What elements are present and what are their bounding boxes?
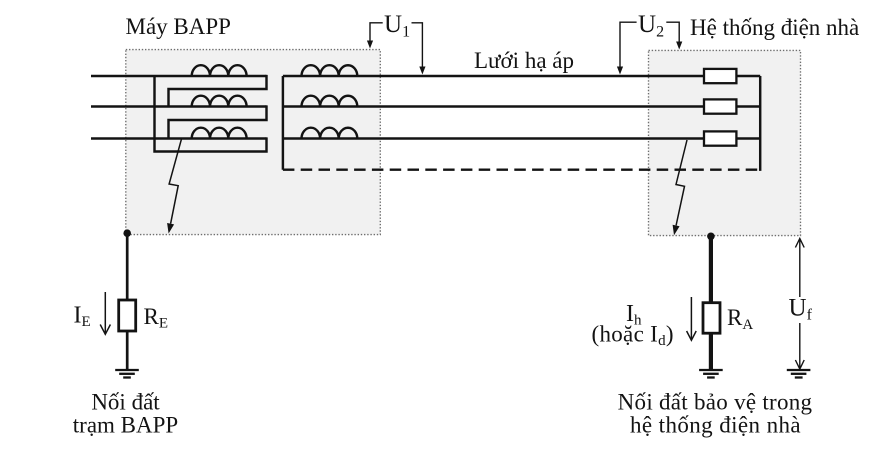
voltage arrow Uf (double headed) — [795, 239, 804, 370]
ground reference for Uf — [787, 370, 811, 378]
wire house PE conductor upper (thick) — [709, 236, 713, 303]
wire station earth conductor upper — [126, 233, 129, 300]
arrowhead U1 left — [367, 41, 373, 49]
wire phase L3 input and primary winding W1c baseline — [91, 137, 267, 139]
measurement bracket U2 — [620, 22, 679, 72]
wire load Z2 to bus — [736, 105, 760, 107]
wire load Z3 to bus — [736, 137, 760, 139]
wire phase L2 input and primary winding W1b baseline — [91, 105, 267, 107]
primary winding W1c humps — [192, 128, 247, 139]
load resistor Z2 — [704, 99, 736, 113]
wire line L2 grid conductor and secondary winding W2b baseline — [283, 105, 704, 107]
svg-text:Nối đất bảo vệ trong: Nối đất bảo vệ trong — [618, 390, 813, 415]
svg-text:U2: U2 — [638, 11, 664, 41]
enclosure box Hệ thống điện nhà (house electrical system) — [649, 50, 801, 235]
wire line L3 grid conductor and secondary winding W2c baseline — [283, 137, 704, 139]
wire house PE conductor lower (thick) — [709, 333, 713, 369]
wire station earth conductor lower — [126, 331, 129, 370]
ground station earth — [115, 370, 139, 378]
svg-text:Nối đất: Nối đất — [91, 390, 160, 415]
label Uf (white backing) — [786, 297, 814, 323]
wire secondary star-point bus — [282, 76, 284, 170]
svg-text:IE: IE — [74, 303, 91, 331]
enclosure box Máy BAPP (transformer station) — [126, 50, 380, 235]
svg-text:RE: RE — [144, 304, 169, 332]
node station earth junction — [123, 229, 131, 237]
secondary winding W2b humps — [302, 96, 358, 107]
load resistor Z1 — [704, 69, 736, 83]
wire line L1 grid conductor and secondary winding W2a baseline — [283, 75, 704, 77]
svg-text:RA: RA — [727, 305, 753, 333]
ground house protective earth — [699, 370, 723, 378]
resistor RA body — [703, 303, 720, 334]
svg-text:Lưới hạ áp: Lưới hạ áp — [474, 48, 574, 73]
load resistor Z3 — [704, 131, 736, 145]
current arrow IE — [100, 292, 110, 334]
arrowhead U2 right — [676, 42, 682, 50]
wire phase L1 input and primary winding W1a baseline — [91, 75, 267, 77]
fault path arrow in house — [673, 140, 687, 235]
current arrow Ih — [687, 297, 697, 340]
secondary winding W2c humps — [302, 128, 358, 139]
svg-text:U1: U1 — [384, 11, 410, 41]
svg-text:Máy BAPP: Máy BAPP — [126, 14, 231, 39]
wire load Z1 to bus — [736, 75, 760, 77]
wire PEN neutral dashed conductor — [283, 168, 760, 170]
svg-text:trạm BAPP: trạm BAPP — [73, 413, 178, 438]
svg-text:(hoặc Id): (hoặc Id) — [592, 322, 674, 350]
svg-text:hệ thống điện nhà: hệ thống điện nhà — [630, 413, 801, 438]
resistor RE body — [119, 300, 136, 331]
fault path arrow in station — [167, 139, 182, 234]
arrowhead U2 left — [617, 67, 623, 75]
wire W1c return and delta bus up to phase L1 — [155, 76, 267, 152]
secondary winding W2a humps — [302, 65, 358, 76]
measurement bracket U1 — [370, 23, 422, 72]
arrowhead U1 right — [419, 67, 425, 75]
node house earth junction — [707, 233, 715, 241]
svg-text:Hệ thống điện nhà: Hệ thống điện nhà — [690, 15, 859, 40]
primary winding W1a humps — [192, 65, 247, 76]
wire load bus in house — [759, 76, 761, 171]
primary winding W1b humps — [192, 96, 247, 107]
wire W1a return to phase L2 — [169, 75, 267, 107]
wire W1b return to phase L3 — [169, 105, 267, 138]
